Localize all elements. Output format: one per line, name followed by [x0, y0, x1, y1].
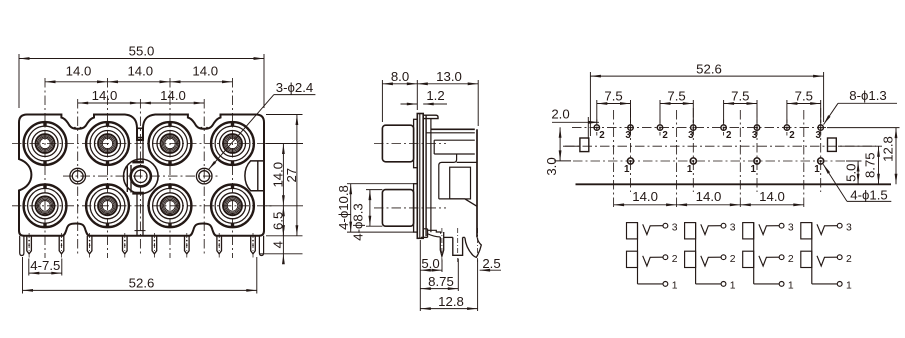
svg-text:14.0: 14.0 [127, 63, 153, 78]
svg-text:13.0: 13.0 [436, 69, 462, 84]
jack row1 col2 [86, 122, 129, 165]
svg-text:7.5: 7.5 [731, 89, 749, 104]
schematic unit 2 [685, 223, 696, 239]
bottom tab + spring [427, 229, 429, 238]
mounting squares [580, 138, 589, 152]
center boss feature [124, 159, 159, 194]
svg-text:3: 3 [688, 130, 694, 141]
svg-text:2: 2 [789, 130, 795, 141]
jack row1 col4 [211, 122, 254, 165]
jack row2 col1 [24, 184, 67, 227]
front view: RCA jack block body outline [19, 115, 264, 236]
svg-text:1: 1 [687, 164, 693, 175]
svg-text:1.2: 1.2 [426, 88, 444, 103]
svg-text:14.0: 14.0 [160, 88, 186, 103]
bottom row pins 4-phi1.5 [627, 158, 633, 164]
side view pins [440, 232, 443, 256]
right side dims 12.8 / 8.75 / 5.0 [827, 127, 900, 129]
jack row2 col3 [149, 184, 192, 227]
svg-text:2: 2 [672, 254, 678, 265]
svg-text:3: 3 [788, 222, 794, 233]
schematic unit 1 [627, 223, 638, 239]
dim 52.6 top [589, 72, 591, 136]
top row pins 8-phi1.3 [594, 125, 599, 130]
svg-text:1: 1 [751, 164, 757, 175]
svg-text:4-ϕ8.3: 4-ϕ8.3 [351, 203, 366, 240]
side view internal details [434, 139, 475, 141]
svg-text:2: 2 [726, 130, 732, 141]
svg-text:14.0: 14.0 [66, 63, 92, 78]
svg-text:3: 3 [625, 130, 631, 141]
svg-text:8.0: 8.0 [391, 69, 409, 84]
svg-text:3: 3 [752, 130, 758, 141]
front view pins [27, 236, 32, 254]
svg-text:4-ϕ1.5: 4-ϕ1.5 [850, 188, 887, 203]
schematic unit 3 [743, 223, 754, 239]
svg-text:1: 1 [730, 281, 736, 292]
svg-text:14.0: 14.0 [632, 189, 658, 204]
svg-text:8.75: 8.75 [428, 274, 454, 289]
svg-text:52.6: 52.6 [696, 61, 722, 76]
horizontal centerlines [572, 127, 826, 129]
svg-text:7.5: 7.5 [667, 89, 685, 104]
svg-text:2: 2 [846, 254, 852, 265]
dims 7.5 x4 [596, 100, 598, 123]
body block behind flange [425, 115, 427, 236]
svg-text:2: 2 [599, 130, 605, 141]
svg-text:1: 1 [788, 281, 794, 292]
side view flange plate [417, 114, 423, 239]
dims 14.0 x3 bottom [614, 204, 677, 206]
svg-text:5.0: 5.0 [844, 164, 859, 182]
svg-text:4: 4 [270, 241, 285, 248]
svg-text:12.8: 12.8 [881, 136, 896, 162]
svg-text:14.0: 14.0 [92, 88, 118, 103]
dim 4-7.5 bottom left [28, 259, 30, 276]
svg-text:3: 3 [816, 130, 822, 141]
center seam slot lines [136, 138, 138, 161]
svg-text:2: 2 [730, 254, 736, 265]
svg-text:4-ϕ10.8: 4-ϕ10.8 [336, 185, 351, 230]
svg-text:1: 1 [624, 164, 630, 175]
vertical centerlines [630, 108, 632, 192]
svg-text:14.0: 14.0 [192, 63, 218, 78]
svg-text:2: 2 [662, 130, 668, 141]
dims 8.0 / 13.0 [381, 80, 383, 122]
svg-text:3: 3 [672, 222, 678, 233]
jack row2 col4 [211, 184, 254, 227]
svg-text:8.75: 8.75 [863, 152, 878, 178]
dim 55.0 [18, 54, 20, 108]
svg-text:8-ϕ1.3: 8-ϕ1.3 [849, 88, 886, 103]
svg-text:12.8: 12.8 [438, 294, 464, 309]
dim 14.0 x2 second row [78, 102, 141, 104]
svg-text:4-7.5: 4-7.5 [30, 258, 60, 273]
svg-text:3.0: 3.0 [544, 157, 559, 175]
svg-text:7.5: 7.5 [795, 89, 813, 104]
svg-text:1: 1 [672, 281, 678, 292]
svg-text:2.5: 2.5 [482, 256, 500, 271]
svg-text:3: 3 [730, 222, 736, 233]
svg-text:3: 3 [846, 222, 852, 233]
jack row2 col2 [86, 184, 129, 227]
corner pins [20, 236, 24, 256]
svg-text:14.0: 14.0 [759, 189, 785, 204]
svg-text:55.0: 55.0 [129, 44, 155, 59]
jack row1 col3 [149, 122, 192, 165]
svg-text:7.5: 7.5 [604, 89, 622, 104]
svg-text:1: 1 [846, 281, 852, 292]
side view bottom dims 5.0 / 8.75 / 12.8 / 2.5 [419, 240, 421, 311]
side view barrels (ports) [382, 125, 413, 162]
svg-text:52.6: 52.6 [129, 275, 155, 290]
schematic unit 4 [801, 223, 812, 239]
svg-text:2.0: 2.0 [551, 107, 569, 122]
3 small holes (3-phi2.4) [70, 168, 86, 184]
svg-text:3-ϕ2.4: 3-ϕ2.4 [276, 80, 313, 95]
jack row1 col1 [24, 122, 67, 165]
svg-text:2: 2 [788, 254, 794, 265]
svg-text:1: 1 [814, 164, 820, 175]
dim 14.0 x3 top row [45, 81, 108, 83]
centerlines front view [12, 143, 272, 145]
svg-text:27: 27 [284, 168, 299, 183]
dim 52.6 bottom [22, 257, 24, 294]
right side dims: 14.0 / 27 / 6.5 / 4 [266, 143, 303, 145]
baseline [576, 183, 892, 185]
notch rib marks [74, 127, 76, 129]
right edge half-boss feature [245, 161, 264, 191]
flange top tab [423, 115, 438, 118]
svg-text:14.0: 14.0 [696, 189, 722, 204]
svg-text:5.0: 5.0 [421, 256, 439, 271]
